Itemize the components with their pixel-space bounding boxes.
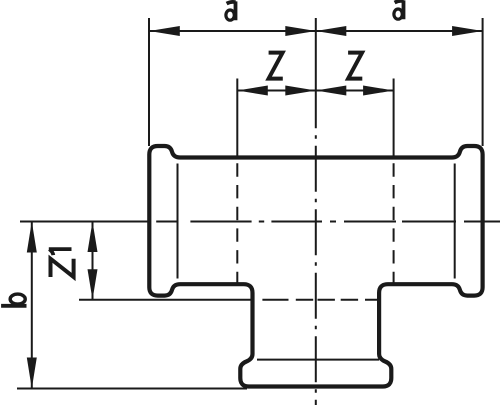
label a left bbox=[226, 1, 236, 20]
horizontal centerline of main run bbox=[156, 221, 500, 223]
label Z1 (rotated) bbox=[49, 249, 74, 277]
hidden dashed line left socket stop bbox=[236, 163, 238, 283]
dimension line Z1 bbox=[92, 222, 94, 300]
dimension line b bbox=[31, 222, 33, 389]
label b (rotated) bbox=[1, 294, 26, 306]
arrowhead a left outer bbox=[149, 26, 180, 36]
right socket bead edge line bbox=[454, 164, 456, 279]
arrowhead a right outer bbox=[452, 26, 483, 36]
extension line center for dimensions a and Z bbox=[315, 18, 317, 128]
arrowhead Z right inner bbox=[316, 86, 347, 96]
extension line Z1 dash-dot inside branch bbox=[262, 299, 377, 301]
extension line left Z bbox=[236, 79, 238, 158]
label Z left bbox=[269, 53, 283, 79]
label Z right bbox=[348, 53, 362, 79]
hidden dashed line right socket stop bbox=[393, 163, 395, 283]
dimension line Z (left and right) bbox=[237, 90, 393, 92]
extension line Z1 bottom solid part bbox=[79, 299, 251, 301]
arrowhead Z left inner bbox=[285, 86, 316, 96]
arrowhead Z right outer bbox=[363, 86, 394, 96]
arrowhead b top bbox=[27, 222, 37, 253]
extension line b bottom bbox=[17, 388, 247, 390]
extension line left end for dimension a bbox=[148, 18, 150, 146]
bottom socket depth line bbox=[257, 359, 379, 361]
vertical centerline of branch bbox=[315, 128, 317, 405]
tee fitting body outline bbox=[149, 146, 482, 387]
arrowhead Z1 top bbox=[88, 222, 98, 253]
arrowhead b bottom bbox=[27, 358, 37, 389]
arrowhead a right inner bbox=[316, 26, 347, 36]
extension line right end for dimension a bbox=[482, 18, 484, 146]
dimension line a (left and right) bbox=[149, 30, 482, 32]
extension line centerline datum at left bbox=[20, 221, 149, 223]
arrowhead Z left outer bbox=[237, 86, 267, 96]
label a right bbox=[394, 0, 404, 19]
arrowhead Z1 bottom bbox=[88, 269, 98, 300]
left socket bead edge line bbox=[177, 164, 179, 279]
arrowhead a left inner bbox=[285, 26, 316, 36]
extension line right Z bbox=[393, 79, 395, 158]
